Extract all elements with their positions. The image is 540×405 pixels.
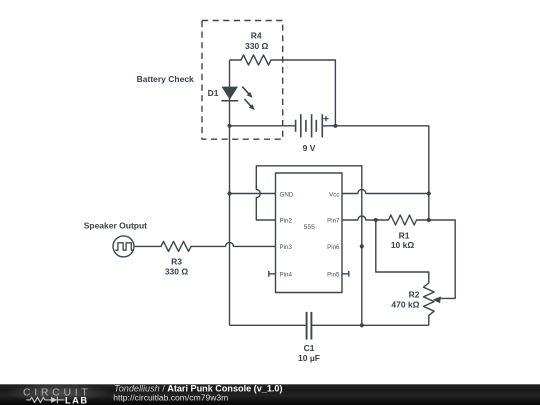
svg-text:LAB: LAB (65, 396, 89, 405)
svg-text:http://circuitlab.com/cm79w3m: http://circuitlab.com/cm79w3m (113, 393, 228, 403)
svg-text:R3: R3 (171, 256, 182, 266)
svg-text:GND: GND (280, 191, 294, 198)
svg-text:Pin5: Pin5 (327, 271, 340, 278)
svg-text:Pin4: Pin4 (280, 271, 293, 278)
svg-text:Pin3: Pin3 (280, 244, 293, 251)
svg-text:C1: C1 (304, 343, 315, 353)
svg-text:Speaker Output: Speaker Output (84, 221, 147, 231)
svg-text:330 Ω: 330 Ω (165, 267, 189, 277)
svg-text:D1: D1 (208, 88, 219, 98)
svg-text:555: 555 (304, 224, 316, 231)
svg-text:10 kΩ: 10 kΩ (391, 240, 415, 250)
svg-text:Pin7: Pin7 (327, 218, 340, 225)
svg-text:Battery Check: Battery Check (137, 74, 194, 84)
svg-text:Pin2: Pin2 (280, 218, 293, 225)
svg-text:330 Ω: 330 Ω (245, 41, 269, 51)
svg-text:470 kΩ: 470 kΩ (391, 300, 419, 310)
svg-text:R1: R1 (399, 230, 410, 240)
svg-text:10 µF: 10 µF (298, 353, 320, 363)
svg-text:Vcc: Vcc (329, 191, 339, 198)
svg-text:Pin6: Pin6 (327, 244, 340, 251)
svg-text:R2: R2 (409, 290, 420, 300)
svg-text:R4: R4 (251, 31, 262, 41)
svg-text:9 V: 9 V (303, 143, 316, 153)
